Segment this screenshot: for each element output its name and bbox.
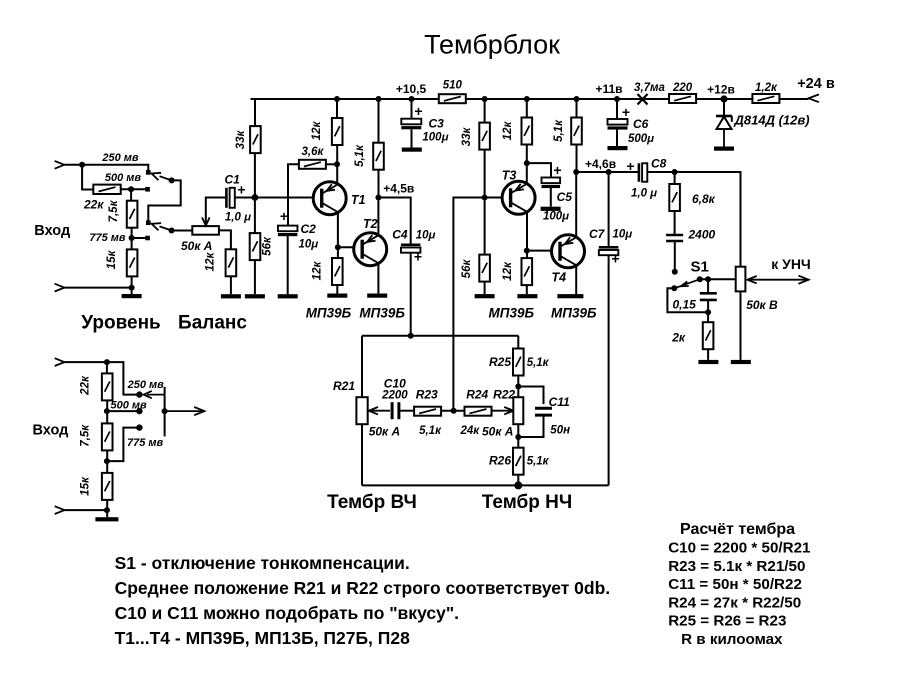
ground below T2: [367, 294, 387, 298]
svg-text:Среднее положение R21 и R22 ст: Среднее положение R21 и R22 строго соотв…: [115, 578, 611, 598]
svg-text:С10 и С11 можно подобрать по ": С10 и С11 можно подобрать по "вкусу".: [115, 603, 459, 623]
wire input 1 lower to chain bottom: [64, 287, 131, 289]
wire node to 56к: [254, 198, 256, 234]
svg-text:2400: 2400: [688, 228, 716, 242]
plus of C6: [622, 104, 630, 120]
junction 22к 7,5к node: [128, 186, 134, 192]
junction 3,6к emitter node: [334, 161, 340, 167]
svg-text:C3: C3: [429, 117, 445, 131]
label C11: [549, 395, 570, 409]
junction wiper 2 pivot: [169, 228, 175, 234]
label 10μ value of C4: [416, 230, 436, 242]
selector wiper 2 arm: [160, 226, 172, 230]
wire T3 base node left to feedback column: [453, 198, 484, 411]
wire output channel 2: [165, 410, 205, 412]
transistor T3: [502, 181, 535, 214]
svg-text:5,1к: 5,1к: [354, 144, 366, 167]
junction on rail at 5,1к T4 resistor: [574, 96, 580, 102]
resistor R24 24к: [465, 407, 492, 416]
capacitor 2400: [666, 235, 683, 241]
svg-text:12к: 12к: [312, 261, 324, 281]
label R25: [489, 355, 511, 369]
resistor 12к T3 emitter load: [522, 118, 533, 145]
label 1,2к: [755, 82, 778, 94]
terminal input 2 upper arrow: [55, 358, 65, 366]
wire T3 collector down: [526, 212, 528, 258]
label Тембр НЧ: [482, 492, 572, 513]
svg-text:50к А: 50к А: [181, 239, 212, 253]
wire T4 collector to ground: [575, 265, 577, 294]
junction T1 collector to T2 base: [335, 244, 341, 250]
junction 0,15 top tap: [705, 276, 711, 282]
capacitor C1 1,0 μ: [226, 188, 234, 208]
wire rail to 5,1к T2: [378, 99, 380, 143]
label R26: [489, 454, 511, 468]
svg-text:510: 510: [443, 80, 463, 92]
svg-text:C10 = 2200 * 50/R21: C10 = 2200 * 50/R21: [668, 540, 811, 557]
svg-text:Т1...Т4 - МП39Б, МП13Б, П27Б,: Т1...Т4 - МП39Б, МП13Б, П27Б, П28: [115, 628, 410, 648]
label 5,1к of R23: [419, 425, 442, 437]
resistor R23 5,1к: [414, 407, 441, 416]
note R24 formula: [668, 594, 801, 611]
svg-text:5,1к: 5,1к: [527, 456, 550, 468]
svg-text:R26: R26: [489, 454, 511, 468]
wire 12к collector to ground: [336, 285, 338, 294]
plus of C1: [237, 182, 245, 198]
label 7,5к rotated: [108, 199, 120, 222]
label 5,1к T4 rotated: [553, 119, 565, 142]
label МП39Б of T1: [306, 306, 352, 321]
label Тембр ВЧ: [327, 492, 417, 513]
svg-text:+: +: [611, 251, 619, 267]
wire C3 to rail: [411, 99, 413, 119]
svg-text:R23: R23: [416, 388, 438, 402]
junction output node at 6,8к: [672, 169, 678, 175]
ground below 56к stage 1: [245, 294, 265, 298]
label R24: [466, 388, 488, 402]
svg-text:2200: 2200: [381, 390, 408, 402]
svg-text:Уровень: Уровень: [81, 313, 160, 334]
wire tone top right down to R25: [517, 336, 519, 349]
ground below 56к stage 2: [475, 294, 495, 298]
svg-text:R23 = 5.1к * R21/50: R23 = 5.1к * R21/50: [668, 558, 805, 575]
wire C11 top jog: [518, 387, 543, 405]
wire R24 to R22 with wiper arrow: [491, 410, 513, 412]
contact 775 мв channel 2: [136, 424, 142, 430]
wire C5 to ground: [550, 188, 552, 207]
capacitor C10 2200: [392, 402, 399, 419]
label 50к А of R21: [369, 425, 400, 439]
capacitor C8 1,0 μ: [639, 163, 647, 182]
label 3,7ма: [634, 82, 665, 94]
junction +4,6в node: [573, 169, 579, 175]
label 775 мв: [89, 232, 126, 244]
svg-text:МП39Б: МП39Б: [359, 306, 405, 321]
label 250 мв: [101, 152, 139, 164]
label Баланс: [178, 313, 247, 334]
label 775 мв channel 2: [127, 437, 164, 449]
wire +12в node to zener: [723, 99, 725, 116]
label Вход channel 1: [34, 223, 70, 239]
contact S1 upper: [672, 269, 678, 275]
svg-text:12к: 12к: [502, 121, 514, 141]
ground below balance 12к: [221, 294, 241, 298]
wire 2к to ground: [707, 349, 709, 360]
svg-text:500μ: 500μ: [628, 133, 654, 145]
junction on rail at 12к T3 emitter resistor: [524, 96, 530, 102]
resistor 510: [439, 94, 466, 103]
label +4,6в: [585, 157, 616, 171]
label МП39Б of T2: [359, 306, 405, 321]
svg-text:5,1к: 5,1к: [419, 425, 442, 437]
junction on rail at zener +12в node: [720, 95, 727, 102]
svg-text:220: 220: [672, 82, 693, 94]
label Уровень: [81, 313, 160, 334]
note C10 formula: [668, 540, 811, 557]
label 22к: [83, 198, 104, 212]
note R25 R26 formula: [668, 613, 786, 630]
svg-text:Тембр ВЧ: Тембр ВЧ: [327, 492, 417, 513]
label C6: [633, 117, 649, 131]
svg-text:C11: C11: [549, 395, 570, 409]
wire C7 down to tone network bottom: [608, 255, 610, 485]
ground input chain 2: [95, 517, 118, 521]
svg-text:50к А: 50к А: [482, 425, 513, 439]
resistor 22к channel 2: [102, 373, 113, 400]
label 500 мв: [105, 172, 142, 184]
svg-text:+: +: [237, 182, 245, 198]
terminal output channel 2 arrow: [194, 407, 204, 415]
plus of C7: [611, 251, 619, 267]
wire 6,8к to 2400: [674, 211, 676, 235]
wire 2400 to S1 contact: [674, 241, 676, 272]
junction on rail at 12к T1 emitter resistor: [334, 96, 340, 102]
svg-text:Вход: Вход: [34, 223, 70, 239]
svg-text:R24 = 27к * R22/50: R24 = 27к * R22/50: [668, 594, 801, 611]
svg-text:500 мв: 500 мв: [110, 400, 147, 412]
svg-text:1,2к: 1,2к: [755, 82, 778, 94]
contact S1 lower: [671, 285, 677, 291]
wire 22к to 7,5к channel 2: [106, 400, 108, 423]
junction +4,5в node: [375, 195, 381, 201]
junction feedback node R23 R24: [451, 408, 457, 414]
svg-text:3,6к: 3,6к: [301, 146, 324, 158]
svg-text:МП39Б: МП39Б: [551, 306, 597, 321]
svg-text:C7: C7: [589, 227, 606, 241]
svg-text:500 мв: 500 мв: [105, 172, 142, 184]
label 50к А balance: [181, 239, 212, 253]
junction input 2 top node: [104, 359, 110, 365]
svg-text:R22: R22: [493, 388, 515, 402]
capacitor C4 10μ output coupling: [401, 244, 421, 253]
svg-text:+: +: [414, 249, 422, 265]
svg-text:7,5к: 7,5к: [79, 424, 91, 447]
wire T2 emitter to +4,5в node: [377, 198, 379, 236]
capacitor C5 100μ: [542, 178, 561, 189]
wire T1 collector to T2 base: [338, 246, 362, 248]
terminal к УНЧ output arrow: [798, 276, 808, 284]
junction R22 R26 C11 node: [515, 434, 521, 440]
svg-text:C10: C10: [384, 377, 406, 391]
wire 500 мв tap channel 2: [107, 410, 139, 412]
resistor 33к stage 1: [250, 126, 261, 153]
svg-text:12к: 12к: [502, 261, 514, 281]
wire 5,1к T4 to +4,6в node: [576, 145, 578, 173]
label 33к stage 1 rotated: [235, 130, 247, 150]
switch S1 arm: [677, 279, 700, 287]
resistor 3,6к feedback: [299, 160, 326, 169]
wire 50к В bottom to ground: [740, 291, 742, 360]
capacitor C7 10μ: [599, 246, 619, 255]
wire C6 to rail: [616, 99, 618, 119]
wire 775 мв tap channel 2: [107, 428, 139, 462]
wire C8 to output node: [648, 172, 741, 267]
resistor 12к balance load: [226, 249, 237, 276]
junction 0,15 bottom node: [705, 309, 711, 315]
wire chain 7,5к to 15к: [131, 228, 133, 250]
label 12к balance rotated: [205, 252, 217, 272]
svg-text:3,7ма: 3,7ма: [634, 82, 665, 94]
wire 0,15 bottom: [707, 300, 709, 322]
ground below 12к T3 collector: [517, 294, 537, 298]
svg-text:6,8к: 6,8к: [692, 192, 716, 206]
wire input 2 lower: [64, 509, 107, 511]
svg-text:50к В: 50к В: [746, 298, 778, 312]
label 12к T1 collector rotated: [312, 261, 324, 281]
wire rail to 33к stage 2: [484, 99, 486, 123]
label C8: [651, 157, 667, 171]
note C11 formula: [668, 576, 802, 593]
resistor 6,8к: [669, 184, 680, 211]
note R в килоомах: [681, 631, 783, 648]
label C1: [225, 173, 241, 187]
svg-text:T1: T1: [351, 193, 366, 207]
resistor 56к stage 2: [479, 255, 490, 282]
label к УНЧ: [771, 256, 811, 272]
svg-text:56к: 56к: [461, 259, 473, 279]
label C7: [589, 227, 606, 241]
resistor 12к T1 emitter load: [332, 118, 343, 145]
wire rail to 12к T1: [336, 99, 338, 118]
junction chain bottom channel 2: [104, 507, 110, 513]
wire C7 to +4,6в node: [608, 172, 610, 246]
label +10,5: [396, 82, 427, 96]
wire R25 to R22: [517, 376, 519, 398]
junction on rail at C3: [409, 96, 415, 102]
junction input 1 node A: [79, 162, 85, 168]
label T4: [552, 271, 567, 285]
svg-text:Вход: Вход: [33, 423, 69, 439]
wire T3 collector to T4 base: [527, 250, 559, 252]
ground below C2: [278, 294, 298, 298]
label 22к channel 2 rotated: [79, 375, 91, 396]
wire R21 bottom to tone bottom: [361, 424, 363, 485]
label 6,8к: [692, 192, 716, 206]
wire T4 emitter up to +4,6в node: [575, 172, 577, 238]
svg-text:1,0 μ: 1,0 μ: [631, 188, 657, 200]
capacitor C11 50н: [535, 408, 552, 415]
wire C5 to emitter node: [527, 163, 551, 177]
resistor 56к stage 1: [250, 233, 261, 260]
wire +10,5/+11в power rail: [251, 98, 809, 100]
wire 33к to T3 base node: [484, 150, 486, 255]
resistor 7,5к: [127, 201, 138, 228]
wire 12к balance to ground: [230, 276, 232, 294]
resistor 12к T1 collector load: [332, 258, 343, 285]
label 220: [672, 82, 693, 94]
wire node A down to 22к: [82, 165, 93, 190]
wire T3 base: [485, 197, 510, 199]
svg-text:Баланс: Баланс: [178, 313, 247, 334]
svg-text:+: +: [280, 208, 288, 224]
svg-text:2к: 2к: [671, 331, 686, 345]
label C5: [557, 190, 573, 204]
svg-text:+: +: [414, 103, 422, 119]
junction T3 emitter C5 node: [524, 160, 530, 166]
resistor 7,5к channel 2: [102, 423, 113, 450]
svg-text:5,1к: 5,1к: [527, 357, 550, 369]
label 5,1к of R26: [527, 456, 550, 468]
label 1,0 μ value of C8: [631, 188, 657, 200]
wire 15к to ground: [131, 276, 133, 294]
label T1: [351, 193, 366, 207]
label 500 мв channel 2: [110, 400, 147, 412]
wire rail to 12к T3: [526, 99, 528, 118]
potentiometer 50к А balance: [192, 226, 219, 235]
junction on rail at 33к T3 divider: [482, 96, 488, 102]
label C10: [384, 377, 406, 391]
wiper arrow at 250 мв channel 2: [147, 394, 165, 396]
label 3,6к: [301, 146, 324, 158]
ground below 50к В: [731, 360, 751, 364]
svg-text:33к: 33к: [461, 127, 473, 147]
resistor 220: [669, 94, 696, 103]
zener diode Д814Д: [716, 116, 732, 147]
plus of C4: [414, 249, 422, 265]
label 10μ value of C2: [299, 239, 319, 251]
plus of C5: [553, 162, 561, 178]
label T3: [502, 169, 517, 183]
wire 0,15 top: [707, 279, 709, 293]
wire C10 to R23: [399, 410, 414, 412]
svg-text:1,0 μ: 1,0 μ: [225, 212, 251, 224]
wire T2 collector to ground: [377, 263, 379, 293]
wire 3,6к to C2: [287, 169, 289, 226]
wiper of 50к В with output line: [747, 279, 808, 281]
junction wiper 1 pivot: [169, 177, 175, 183]
wire 12к to T1 emitter: [336, 145, 338, 184]
wiper arrow onto balance pot: [202, 217, 210, 225]
potentiometer R21 50к А treble: [356, 397, 367, 424]
note line 3 С10 и С11: [115, 603, 459, 623]
junction chain bottom: [129, 285, 135, 291]
label 2к: [671, 331, 686, 345]
label 2200 value of C10: [381, 390, 408, 402]
resistor 1,2к: [752, 94, 779, 103]
ground below C5: [541, 207, 561, 211]
terminal +24 в supply input arrow: [809, 94, 819, 102]
label 15к rotated: [106, 250, 118, 270]
svg-text:R25: R25: [489, 355, 511, 369]
wire 775 мв tap: [132, 237, 148, 239]
label 56к stage 1 rotated: [262, 236, 274, 256]
svg-text:C11 = 50н * 50/R22: C11 = 50н * 50/R22: [668, 576, 802, 593]
label +4,5в: [383, 182, 414, 196]
label T2: [363, 217, 378, 231]
junction S1 pivot on output wire: [697, 276, 703, 282]
svg-text:100μ: 100μ: [543, 211, 569, 223]
wire S1 pivot to 50к В pot: [700, 278, 736, 280]
label 500μ: [628, 133, 654, 145]
wire rail to 5,1к T4: [576, 99, 578, 118]
label R21: [333, 379, 355, 393]
wire C6 to ground: [616, 130, 618, 146]
potentiometer R22 50к А bass: [513, 397, 523, 424]
wire 12к T3 to emitter: [526, 145, 528, 184]
svg-text:22к: 22к: [79, 375, 91, 396]
svg-text:МП39Б: МП39Б: [489, 306, 535, 321]
wire balance pot right to 12к: [219, 230, 231, 249]
svg-text:100μ: 100μ: [422, 132, 448, 144]
wire chain 22к to 7,5к: [130, 189, 132, 200]
svg-text:775 мв: 775 мв: [89, 232, 126, 244]
wire 22к to divider chain: [121, 188, 148, 190]
svg-text:к УНЧ: к УНЧ: [771, 256, 811, 272]
wire S1 lower contact to 0,15 bottom node: [667, 288, 708, 312]
label Д814Д (12в): [734, 113, 810, 128]
svg-text:12к: 12к: [311, 121, 323, 141]
label C3: [429, 117, 445, 131]
wire 33к branch: [254, 126, 256, 197]
junction output tap channel 2: [162, 408, 168, 414]
contact 250 мв selector position: [146, 170, 151, 175]
svg-text:10μ: 10μ: [299, 239, 319, 251]
wire rail left end to 33к: [254, 99, 256, 126]
resistor R25 5,1к: [513, 349, 524, 376]
contact 250 мв channel 2: [136, 391, 142, 397]
transistor T2: [354, 233, 387, 266]
label S1: [691, 259, 709, 276]
svg-text:50н: 50н: [550, 425, 570, 437]
svg-text:T3: T3: [502, 169, 517, 183]
junction C4 into tone top: [408, 333, 414, 339]
label Вход channel 2: [33, 423, 69, 439]
note S1 line 1: [115, 553, 410, 573]
svg-text:Тембрблок: Тембрблок: [424, 30, 560, 60]
note Расчёт тембра header: [680, 521, 795, 538]
wiper of R21 to C10: [370, 410, 391, 412]
contact selector 2 upper: [146, 220, 151, 225]
wire 22к channel 2 top: [106, 362, 108, 373]
svg-text:C2: C2: [301, 222, 317, 236]
svg-text:12к: 12к: [205, 252, 217, 272]
label R22: [493, 388, 515, 402]
junction 500 мв node channel 2: [104, 408, 110, 414]
ground below C6: [608, 146, 628, 150]
wire T1 collector down: [337, 213, 339, 259]
label 7,5к channel 2 rotated: [79, 424, 91, 447]
wire 3,6к right to emitter node: [326, 163, 337, 165]
wire 7,5к to 15к channel 2: [106, 450, 108, 473]
label 10μ value of C7: [613, 229, 633, 241]
label +24 в: [797, 76, 835, 92]
svg-text:+4,5в: +4,5в: [383, 182, 414, 196]
wire C3 to ground: [411, 129, 413, 147]
title label Тембрблок: [424, 30, 560, 60]
label 250 мв channel 2: [127, 379, 165, 391]
note line 4 Т1...Т4: [115, 628, 410, 648]
wire +4,6в node to C8: [576, 171, 638, 173]
